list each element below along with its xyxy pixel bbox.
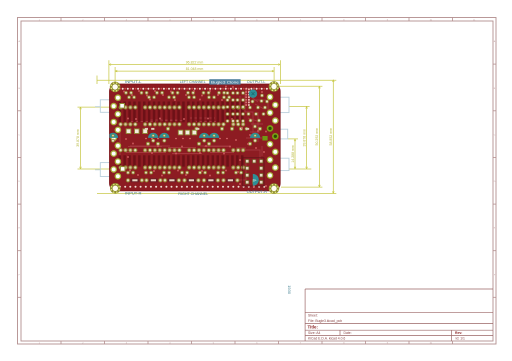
svg-text:96.822 mm: 96.822 mm — [186, 60, 204, 64]
svg-text:39.878 mm: 39.878 mm — [76, 129, 80, 147]
svg-text:Rev:: Rev: — [455, 331, 462, 335]
svg-text:50.292 mm: 50.292 mm — [315, 128, 319, 146]
svg-text:14.288 mm: 14.288 mm — [291, 145, 295, 163]
svg-text:OUTPUT-L: OUTPUT-L — [247, 79, 267, 84]
svg-text:81.048 mm: 81.048 mm — [186, 67, 204, 71]
svg-text:B+: B+ — [253, 179, 257, 183]
svg-text:KiCad E.D.A. kicad 4.0.6: KiCad E.D.A. kicad 4.0.6 — [308, 336, 345, 340]
svg-text:58.852 mm: 58.852 mm — [329, 128, 333, 146]
svg-text:INPUT-L: INPUT-L — [125, 79, 142, 84]
svg-text:OUTPUT-R: OUTPUT-R — [247, 189, 268, 194]
svg-text:RIGHT CHANNEL: RIGHT CHANNEL — [178, 191, 209, 196]
svg-text:Sheet:: Sheet: — [308, 314, 318, 318]
svg-text:File: Bugle3.kicad_pcb: File: Bugle3.kicad_pcb — [308, 319, 342, 323]
svg-text:LEFT CHANNEL: LEFT CHANNEL — [180, 79, 207, 84]
svg-text:Id: 1/1: Id: 1/1 — [456, 336, 466, 340]
svg-text:Title:: Title: — [308, 324, 319, 329]
svg-text:1930: 1930 — [287, 285, 292, 295]
svg-text:INPUT-R: INPUT-R — [125, 191, 142, 196]
svg-text:39.878 mm: 39.878 mm — [302, 129, 306, 147]
svg-text:Size: A4: Size: A4 — [308, 331, 321, 335]
svg-text:Date:: Date: — [344, 331, 352, 335]
svg-text:Bugle3 Clone: Bugle3 Clone — [211, 81, 239, 85]
